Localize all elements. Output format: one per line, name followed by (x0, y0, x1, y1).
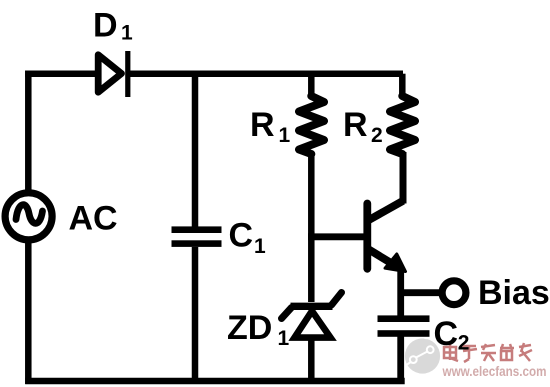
svg-text:www.elecfans.com: www.elecfans.com (442, 364, 547, 379)
zener diode ZD1 (282, 293, 342, 338)
resistor R2 (390, 74, 415, 154)
wire top rail right of D1 (126, 70, 403, 77)
wire bias stub (401, 289, 441, 296)
wire R2 bottom lead / collector (400, 152, 407, 204)
wire zener to bottom rail (308, 338, 315, 381)
svg-text:C: C (434, 315, 459, 353)
bias terminal (442, 281, 466, 305)
transistor Q1 (367, 201, 405, 272)
wire top rail left of D1 (25, 70, 100, 77)
wire emitter down (397, 267, 404, 316)
watermark logo circle (404, 337, 440, 374)
diode D1 (98, 51, 130, 97)
wire left rail lower (25, 241, 32, 384)
wire R2 top lead (399, 74, 406, 98)
svg-text:Bias: Bias (478, 274, 550, 312)
capacitor C2 (378, 315, 430, 336)
wire C1 branch lower (192, 247, 199, 381)
svg-text:R: R (343, 106, 368, 144)
capacitor C1 (172, 226, 222, 247)
svg-text:1: 1 (254, 235, 266, 258)
wire R1 top lead (308, 74, 315, 98)
svg-text:1: 1 (121, 22, 133, 45)
wire C1 branch upper (192, 74, 199, 227)
wire base wire (308, 233, 366, 240)
svg-text:D: D (93, 7, 118, 45)
svg-text:AC: AC (69, 200, 118, 238)
wire left rail upper (25, 71, 32, 193)
watermark text 电子发烧友 (drawn as pseudo-glyph strokes) (444, 343, 532, 362)
resistor R1 (299, 96, 324, 154)
wire C2 to bottom rail (397, 337, 404, 382)
wire bottom rail (25, 378, 405, 385)
wire R1 to base junction to zener (308, 152, 315, 302)
svg-text:C: C (229, 217, 254, 255)
svg-text:R: R (250, 106, 275, 144)
svg-text:1: 1 (278, 327, 290, 350)
svg-text:2: 2 (371, 124, 383, 147)
ac source V1 (5, 193, 52, 240)
svg-text:1: 1 (279, 124, 291, 147)
svg-text:2: 2 (458, 332, 470, 355)
svg-text:ZD: ZD (227, 309, 272, 347)
